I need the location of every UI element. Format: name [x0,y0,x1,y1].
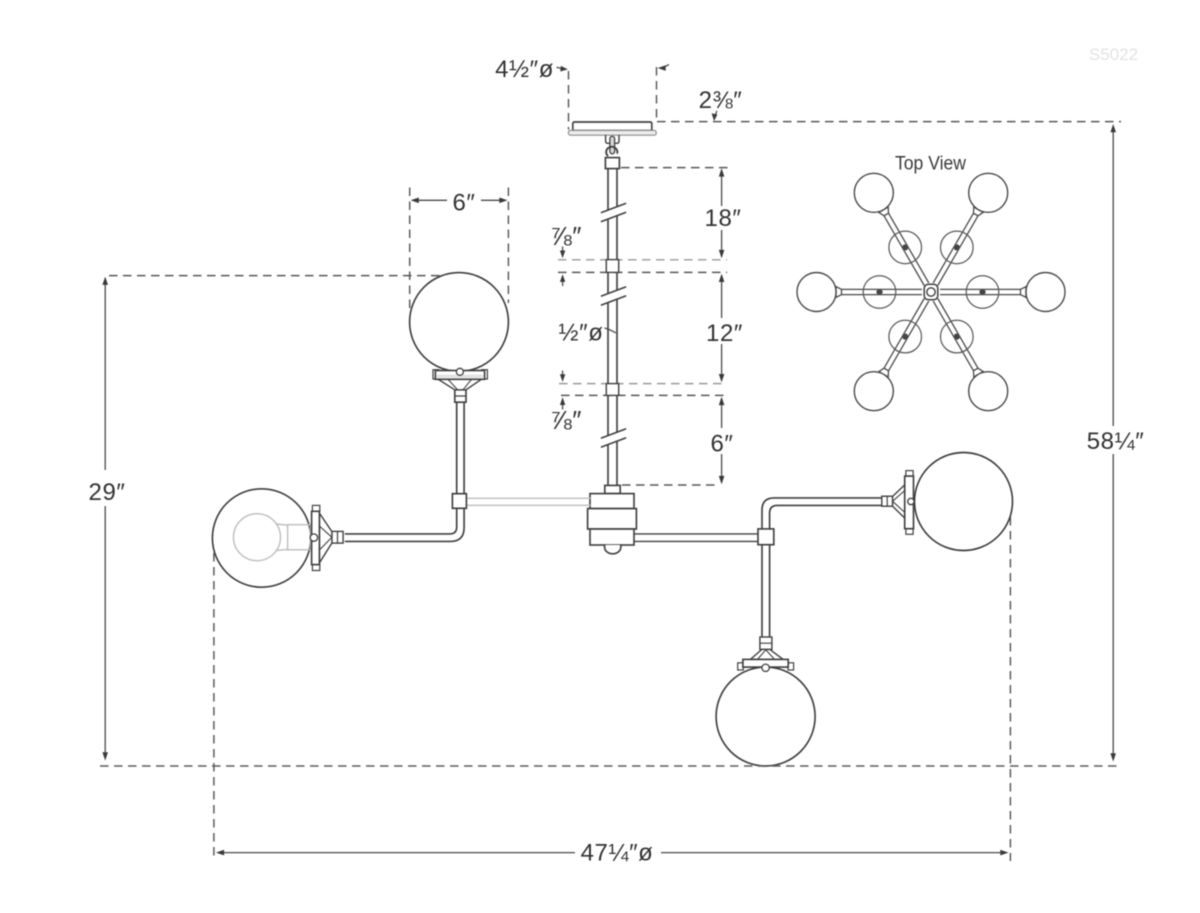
svg-text:6″: 6″ [452,190,475,217]
svg-text:18″: 18″ [705,205,742,232]
svg-text:S5022: S5022 [1089,45,1138,64]
svg-text:58¼″: 58¼″ [1087,428,1145,455]
svg-text:⅞″: ⅞″ [550,221,582,251]
svg-text:47¼″ø: 47¼″ø [581,840,654,867]
svg-text:6″: 6″ [710,431,733,458]
svg-text:29″: 29″ [89,479,126,506]
svg-text:Top View: Top View [895,153,967,175]
svg-text:⅞″: ⅞″ [550,405,582,435]
svg-text:12″: 12″ [706,320,743,347]
svg-text:½″ø: ½″ø [559,320,604,347]
svg-text:4½″ø: 4½″ø [495,56,554,83]
svg-text:2⅜″: 2⅜″ [699,87,743,114]
